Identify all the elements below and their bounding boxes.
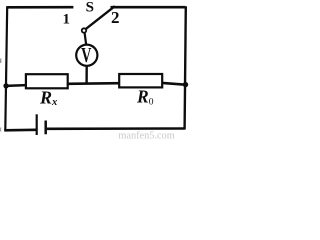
wire from voltmeter down to middle wire: [85, 66, 87, 84]
resistor Rx box: [26, 74, 68, 88]
switch S blade (thrown to position 2): [86, 6, 115, 29]
battery B1 long plate (left): [36, 114, 38, 135]
switch S pivot circle: [82, 28, 86, 32]
svg-text:2: 2: [111, 8, 120, 27]
wire top-right (from blade tip to top-right corner): [111, 6, 186, 9]
svg-text:1: 1: [62, 12, 70, 28]
svg-text:manfen5.com: manfen5.com: [118, 131, 174, 140]
wire middle seg1 (left junction to Rx): [6, 84, 27, 87]
node junction dot left: [3, 83, 8, 88]
svg-text:V: V: [81, 44, 91, 67]
wire from switch pivot down to voltmeter: [85, 33, 87, 45]
svg-text:Rx: Rx: [39, 87, 57, 108]
wire top-left (from top-left corner to switch terminal 1): [7, 6, 73, 9]
wire bottom-left (bottom-left corner to battery): [4, 129, 36, 132]
voltmeter U1 circle: [76, 45, 97, 66]
wire middle seg3 (R0 to right junction): [162, 83, 185, 85]
scan speckle left edge lower: [0, 128, 1, 132]
svg-text:R0: R0: [136, 86, 154, 107]
resistor R0 box: [119, 74, 162, 87]
scan speckle left edge upper: [0, 59, 1, 64]
node junction dot right: [183, 82, 188, 87]
wire left side (top-left corner down to bottom-left corner): [5, 6, 7, 130]
battery B1 short plate (right): [44, 121, 47, 135]
wire right side (top-right corner down to bottom-right corner): [185, 6, 186, 129]
wire middle seg2 (Rx to R0, through voltmeter tap): [68, 82, 119, 85]
wire bottom-right (battery to bottom-right corner): [47, 127, 186, 130]
svg-text:S: S: [86, 0, 94, 16]
